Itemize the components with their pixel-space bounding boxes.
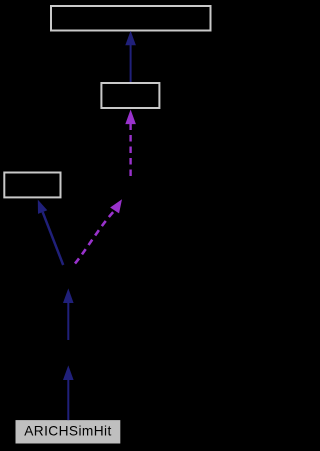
edge: dashed usage arrow hidden node to box2 (purple dashed) [125,110,136,177]
edge: inheritance arrow box2 to top box (blue solid) [125,31,136,82]
edge: inheritance arrow hidden node to hidden node (blue solid vertical, upper) [63,288,74,340]
node: ARICHSimHit box [16,420,121,443]
node: second class box (unlabeled) [101,83,159,108]
edge: dashed usage arrow hidden node to hidden node (purple dashed diagonal) [75,199,122,263]
node: top base-class box (unlabeled) [51,6,211,31]
node: left class box (unlabeled) [4,173,60,198]
edge: inheritance arrow hidden node to left box (blue solid diagonal) [38,200,63,265]
edge: inheritance arrow ARICHSimHit to hidden node (blue solid vertical, lower) [63,365,74,420]
svg-text:ARICHSimHit: ARICHSimHit [24,424,112,439]
